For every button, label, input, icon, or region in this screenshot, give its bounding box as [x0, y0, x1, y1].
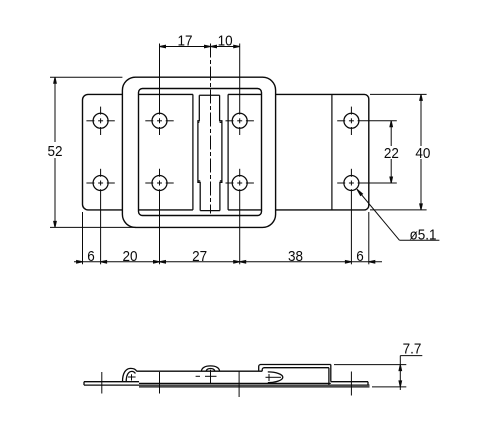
- svg-text:6: 6: [87, 248, 95, 265]
- svg-text:17: 17: [177, 33, 192, 50]
- svg-text:20: 20: [122, 248, 137, 265]
- svg-text:10: 10: [218, 33, 233, 50]
- svg-text:52: 52: [47, 143, 62, 160]
- svg-text:38: 38: [288, 248, 303, 265]
- svg-text:40: 40: [415, 146, 430, 163]
- svg-text:7.7: 7.7: [403, 341, 422, 358]
- svg-text:27: 27: [192, 248, 207, 265]
- svg-text:6: 6: [356, 248, 364, 265]
- svg-text:ø5.1: ø5.1: [410, 227, 437, 244]
- svg-text:22: 22: [384, 146, 399, 163]
